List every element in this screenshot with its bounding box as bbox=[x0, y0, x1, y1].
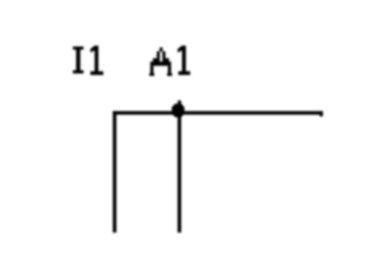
label A1 bbox=[149, 47, 172, 75]
wire vertical middle from junction bbox=[178, 112, 182, 233]
junction dot bbox=[172, 100, 185, 117]
label I1 bbox=[73, 46, 103, 75]
wire vertical left bbox=[113, 111, 117, 233]
label 1 of A1 bbox=[178, 46, 191, 75]
wire horizontal from corner to right end bbox=[113, 111, 323, 116]
